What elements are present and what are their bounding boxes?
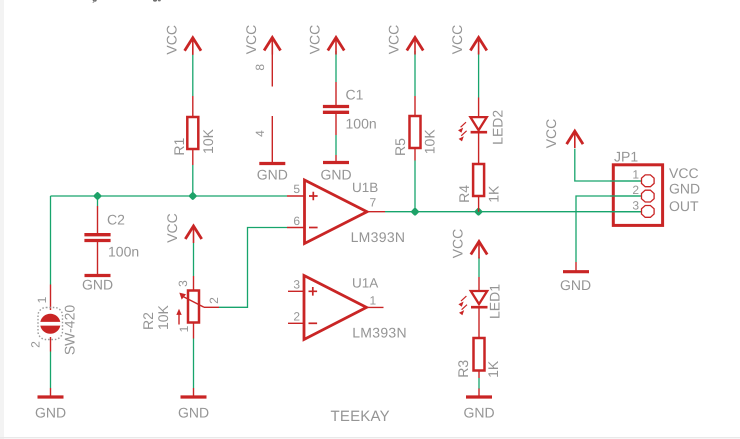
svg-text:1: 1 [177, 325, 191, 332]
LED2 [478, 98, 480, 119]
svg-text:TEEKAY: TEEKAY [331, 408, 390, 425]
svg-text:3: 3 [293, 278, 300, 292]
IC power pin 4 [271, 116, 273, 164]
VCC symbol (IC pin8) [264, 38, 280, 55]
ground (C2) [85, 275, 111, 277]
svg-text:VCC: VCC [243, 25, 259, 55]
ground (IC pin4) [259, 163, 285, 165]
svg-text:10K: 10K [155, 304, 171, 330]
JP1 pin 1 pad [642, 175, 655, 187]
IC power pin 8 [271, 52, 273, 87]
svg-text:GND: GND [320, 167, 351, 183]
VCC symbol (R1) [185, 38, 201, 55]
bottom page border line [0, 437, 740, 438]
svg-text:VCC: VCC [543, 119, 559, 149]
svg-text:U1A: U1A [352, 276, 378, 291]
connector JP1 [613, 165, 662, 226]
svg-text:3: 3 [176, 280, 190, 287]
svg-text:U1B: U1B [352, 180, 378, 195]
vibration sensor SW-420 [50, 285, 52, 311]
svg-text:R1: R1 [171, 138, 187, 156]
svg-text:R4: R4 [456, 185, 472, 203]
svg-text:LM393N: LM393N [351, 229, 406, 245]
svg-text:VCC: VCC [164, 213, 180, 243]
clipped title descender g [153, 0, 157, 2]
wire: R5 top green [414, 51, 416, 96]
svg-text:GND: GND [257, 167, 288, 183]
VCC symbol (R2) [185, 226, 201, 243]
ground (sensor) [50, 388, 52, 397]
svg-text:VCC: VCC [386, 25, 402, 55]
svg-text:1: 1 [632, 168, 639, 182]
wire: R3 bottom green [478, 378, 480, 389]
wire: main top bus y=196 [51, 195, 288, 197]
svg-text:VCC: VCC [669, 165, 699, 181]
JP1 pin 3 pad [642, 206, 655, 218]
wire overlay into JP1 pin1 [610, 180, 642, 182]
svg-text:2: 2 [632, 183, 639, 197]
svg-text:JP1: JP1 [614, 149, 638, 165]
wire: R2 bottom green [193, 339, 195, 389]
svg-text:VCC: VCC [163, 25, 179, 55]
wire: sensor lower green segment [50, 352, 52, 389]
svg-text:VCC: VCC [450, 229, 466, 259]
ground (R2) [193, 388, 195, 397]
ground (JP1) [575, 262, 577, 272]
svg-text:GND: GND [669, 181, 700, 197]
svg-text:1K: 1K [486, 185, 502, 203]
wire: R1 bottom green [192, 165, 194, 196]
junction node C2/bus [93, 191, 102, 200]
svg-text:C1: C1 [346, 87, 364, 103]
junction node R4/out [474, 207, 483, 216]
capacitor C1 [335, 82, 337, 105]
ground (C1) [323, 162, 349, 164]
svg-text:LED2: LED2 [490, 110, 506, 145]
svg-text:10K: 10K [200, 128, 216, 154]
svg-text:SW-420: SW-420 [62, 305, 78, 356]
svg-text:5: 5 [293, 182, 300, 196]
svg-text:C2: C2 [107, 212, 125, 228]
svg-text:1: 1 [35, 296, 49, 303]
svg-text:VCC: VCC [307, 25, 323, 55]
wire: left vertical down to sensor [50, 196, 52, 285]
wire: LED2 top green [478, 51, 480, 98]
svg-text:GND: GND [82, 276, 113, 292]
VCC symbol (LED2) [470, 38, 486, 55]
resistor R4 [478, 132, 480, 164]
svg-text:7: 7 [370, 196, 377, 210]
svg-text:VCC: VCC [449, 25, 465, 55]
svg-text:R5: R5 [392, 138, 408, 156]
clipped title descender y [93, 0, 97, 2]
wire: R5 bottom green to out net [414, 161, 416, 212]
svg-text:GND: GND [178, 405, 209, 421]
resistor R5 [414, 96, 416, 116]
svg-text:GND: GND [35, 405, 66, 421]
svg-text:4: 4 [253, 130, 267, 137]
svg-text:LED1: LED1 [486, 284, 502, 319]
svg-text:2: 2 [29, 341, 43, 348]
wire: C2 branch green [97, 196, 99, 206]
svg-text:3: 3 [632, 199, 639, 213]
wire: R2 wiper to pin6 path [219, 228, 287, 308]
wire: LED1 vcc green [478, 257, 480, 277]
junction node R5/out [410, 207, 419, 216]
svg-text:2: 2 [207, 297, 221, 304]
left page border strip [0, 0, 4, 439]
capacitor C2 [97, 206, 99, 233]
svg-text:GND: GND [560, 277, 591, 293]
resistor R3 [478, 307, 480, 338]
wire: JP1 VCC to pin1 [575, 149, 642, 181]
wire: C1 top green [335, 51, 337, 82]
wire: out net pin7 to JP1 pin3 [385, 211, 642, 213]
resistor R1 [192, 96, 194, 117]
svg-text:1K: 1K [485, 360, 501, 378]
svg-text:10K: 10K [422, 129, 438, 155]
LED1 [478, 277, 480, 292]
VCC symbol (C1) [328, 38, 344, 55]
wire: R2 top green [193, 243, 195, 276]
ground (R3) [478, 389, 480, 398]
svg-text:GND: GND [463, 405, 494, 421]
op-amp U1A [288, 290, 304, 292]
wire: C1 bottom green [335, 135, 337, 155]
JP1 pin 2 pad [642, 190, 655, 202]
wire: JP1 pin2 to GND [576, 196, 642, 262]
svg-text:6: 6 [293, 214, 300, 228]
VCC symbol (R5) [407, 38, 423, 55]
VCC symbol (JP1) [567, 131, 583, 148]
junction node R1/bus [188, 191, 197, 200]
wire: R1 top green [192, 51, 194, 96]
svg-text:R2: R2 [140, 312, 156, 330]
svg-text:2: 2 [293, 310, 300, 324]
svg-text:1: 1 [370, 294, 377, 308]
svg-text:100n: 100n [346, 116, 377, 132]
svg-text:100n: 100n [108, 243, 139, 259]
op-amp U1B [287, 195, 305, 197]
wire overlay into JP1 pin2 [610, 195, 642, 197]
potentiometer R2 [193, 276, 195, 291]
svg-text:LM393N: LM393N [352, 325, 407, 341]
VCC symbol (LED1) [471, 242, 487, 259]
svg-text:8: 8 [253, 64, 267, 71]
wire overlay into JP1 pin3 [610, 211, 642, 213]
svg-text:R3: R3 [455, 360, 471, 378]
svg-text:OUT: OUT [669, 198, 699, 214]
